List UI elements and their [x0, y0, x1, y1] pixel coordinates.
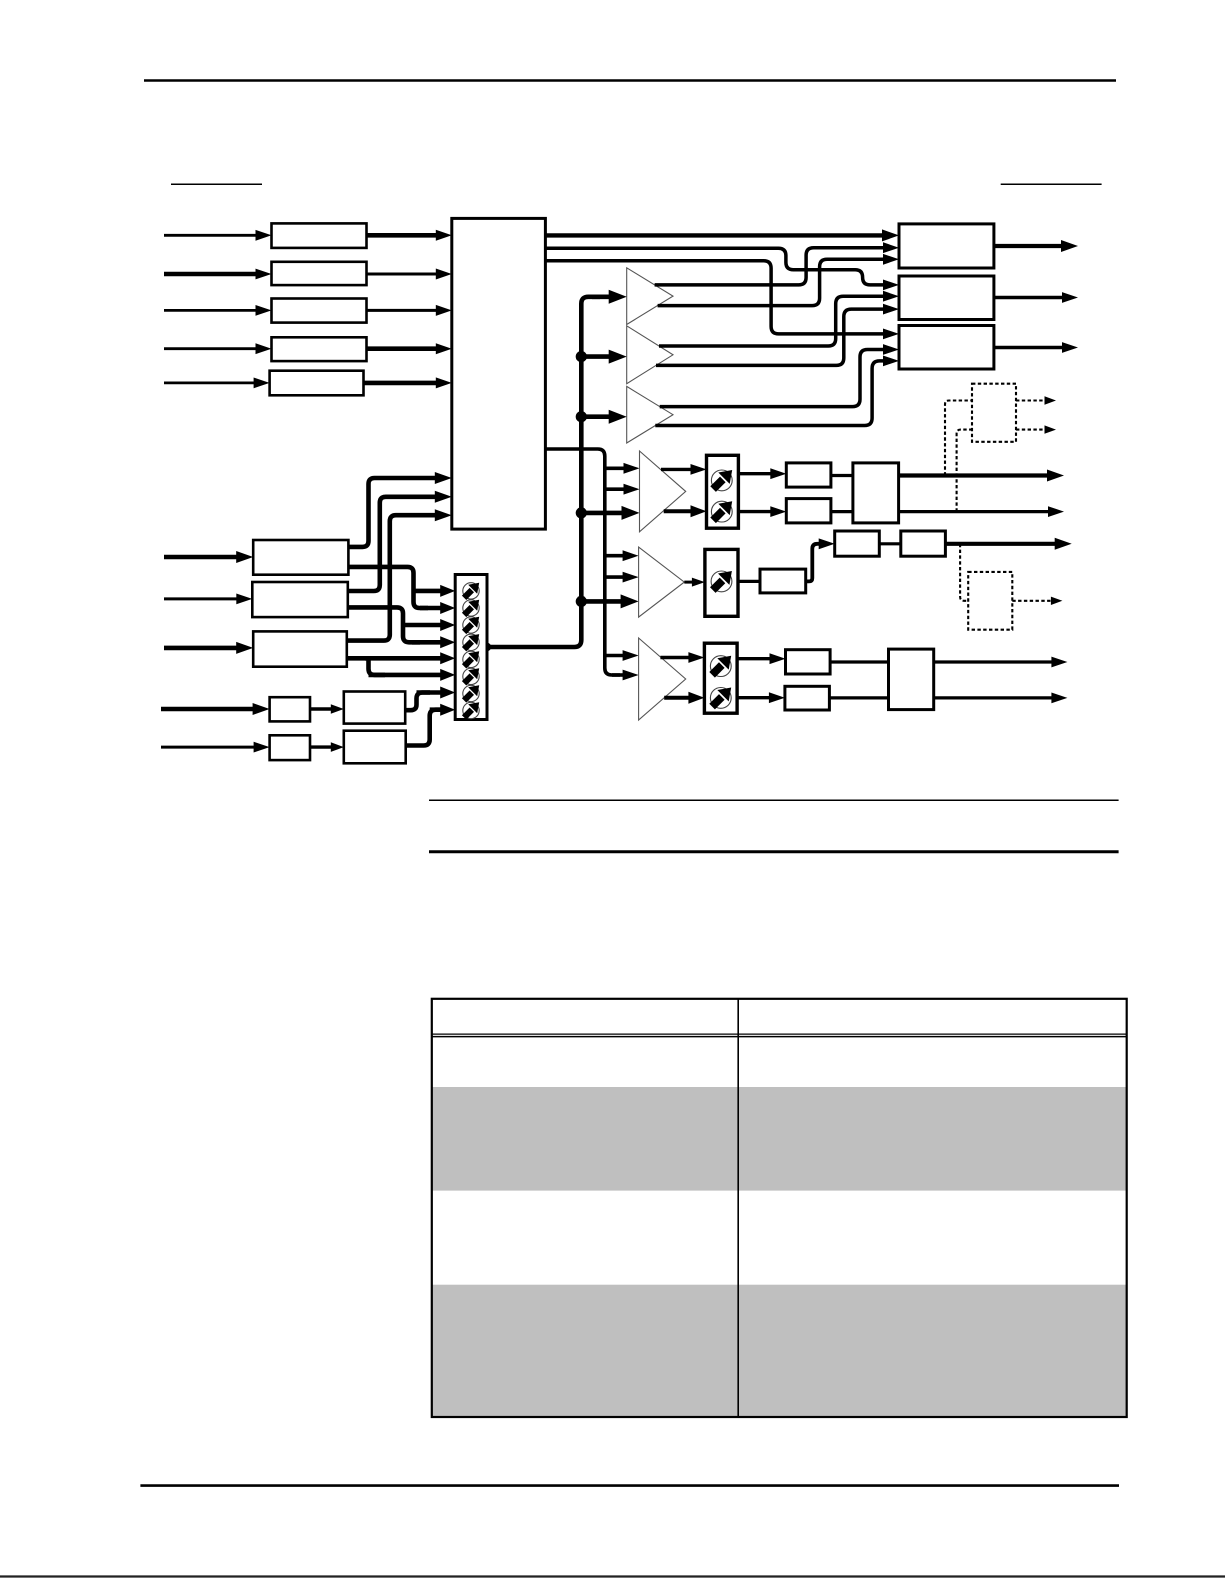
distribution amp DA1 — [627, 268, 673, 325]
attenuator knob B1 — [711, 571, 732, 592]
input arrow S1 — [161, 707, 255, 712]
bus junction at DA3 — [576, 411, 587, 422]
wire DA1 top output to R1 — [655, 248, 885, 285]
amp C output to attenuator top — [660, 656, 690, 659]
arrow into knob 3 — [403, 623, 442, 628]
table shaded row 4 — [432, 1285, 1127, 1417]
wire IN4 to switcher — [367, 346, 438, 351]
input arrow M3 — [164, 646, 238, 651]
stereo input box M2 — [252, 582, 347, 617]
audio amp C — [639, 638, 686, 720]
output processor box R3 — [899, 326, 994, 370]
amp B output to attenuator — [684, 581, 694, 584]
arrow into amp A input 1 — [605, 466, 626, 470]
dashed tap from H1 top output to D1 — [945, 401, 972, 476]
volume knob 2 — [463, 600, 479, 616]
section rule thin — [429, 799, 1119, 801]
wire DA2 top output to R2 — [659, 296, 885, 346]
attenuator pair box A — [707, 455, 739, 528]
input arrow IN1 — [164, 234, 258, 237]
arrow into amp A input 2 — [605, 487, 626, 491]
balance box G1b — [786, 499, 831, 523]
dashed tap from H2 output to D2 — [960, 544, 968, 601]
optional module D2 (dashed) — [968, 572, 1012, 630]
bus arrow into DA1 — [592, 294, 611, 299]
volume knob 8 — [463, 702, 479, 718]
arrow into knob 2 — [420, 606, 442, 611]
wire M3 to volume knob 5 — [347, 656, 442, 661]
bus arrow into amp B lower input — [581, 599, 622, 604]
arrow S2 to B2 — [310, 745, 333, 748]
wire G2 up to G3 — [806, 544, 821, 582]
wire U1 to R1 (top) — [545, 233, 884, 237]
wire DA2 bottom output to R2 — [656, 309, 885, 365]
table header separator double line — [432, 1033, 1127, 1035]
level box G3 — [835, 531, 880, 556]
wire IN2 to switcher — [367, 273, 438, 276]
arrow into knob 1 — [414, 589, 443, 594]
dashed output arrow D1 bottom — [1016, 429, 1046, 431]
wire G4a to H3 — [830, 660, 888, 663]
arrow into amp C input 1 — [605, 654, 625, 658]
wire IN3 to switcher — [367, 309, 438, 312]
output processor box R2 — [899, 276, 994, 320]
wire IN5 to switcher — [364, 381, 438, 386]
output stage box H2 — [901, 531, 946, 556]
wire attenuator A1 to box G1a — [738, 472, 772, 475]
input arrow M1 — [164, 555, 238, 560]
audio amp B — [639, 547, 685, 617]
wire DA1 bottom output to R1 — [658, 259, 885, 305]
bus junction at amp A — [576, 507, 587, 518]
wire U1 to R3 via jog — [545, 261, 885, 334]
volume knob bank box — [455, 575, 487, 720]
output stage box H3 — [889, 649, 934, 710]
stereo input box M1 — [253, 540, 348, 575]
table column divider — [737, 999, 739, 1417]
wire attenuator B to G2 — [738, 580, 760, 583]
volume knob 1 — [463, 583, 479, 599]
wire attenuator A2 to box G1b — [738, 510, 772, 513]
wire B1 to knob 7 — [405, 693, 430, 711]
distribution amp DA2 — [627, 326, 673, 384]
volume knob 7 — [463, 685, 479, 701]
wire attenuator C1 to G4a — [737, 657, 771, 660]
output arrow H3 bottom — [934, 696, 1054, 699]
arrow into knob 7 — [417, 690, 443, 695]
dashed output arrow D1 top — [1016, 399, 1046, 401]
arrow into amp B input 2 — [605, 575, 625, 579]
right heading underline — [1001, 183, 1102, 185]
wire G1a to H1 — [831, 474, 853, 477]
dashed tap from H1 bottom output to D1 — [957, 430, 972, 512]
wire G1b to H1 — [831, 510, 853, 513]
audio amp A — [640, 451, 686, 532]
dashed output arrow D2 — [1012, 600, 1052, 602]
wire attenuator C2 to G4b — [737, 696, 771, 699]
balance box G4b — [785, 686, 830, 710]
bus arrow into DA2 — [581, 354, 610, 359]
input buffer box IN1 — [272, 223, 367, 248]
wire DA3 top output to R3 — [660, 350, 885, 407]
arrow into knob 8 — [430, 707, 443, 712]
left heading underline — [171, 183, 262, 185]
volume knob 6 — [463, 668, 479, 684]
small box S2 — [270, 735, 310, 760]
output stage box H1 — [853, 463, 899, 523]
wire M1 to U1 input — [348, 478, 436, 547]
optional module D1 (dashed) — [972, 384, 1016, 442]
bus arrow into amp A lower input — [581, 511, 623, 516]
distribution amp DA3 — [627, 386, 673, 443]
preamp box B1 — [344, 692, 405, 724]
small box S1 — [270, 697, 310, 721]
input buffer box IN3 — [272, 299, 367, 323]
level box G2 — [760, 569, 806, 593]
attenuator knob C1 — [710, 656, 731, 677]
balance box G1a — [786, 463, 831, 487]
attenuator pair box C — [704, 643, 737, 713]
bus junction at DA2 — [576, 351, 587, 362]
wire M3 to U1 input — [347, 515, 437, 640]
wire U1 to R2 via jog — [545, 248, 885, 285]
attenuator knob A2 — [711, 501, 732, 522]
wire B2 to knob 8 — [406, 710, 443, 746]
top horizontal rule — [144, 79, 1116, 82]
output arrow H2 — [945, 542, 1056, 546]
footer rule — [140, 1484, 1119, 1487]
wire M2 to U1 input — [348, 497, 437, 591]
table shaded row 2 — [432, 1087, 1127, 1191]
input buffer box IN5 — [270, 371, 364, 396]
volume knob 5 — [463, 651, 479, 667]
wire M2 to volume knobs 3+4 — [348, 607, 420, 642]
output arrow H3 top — [934, 660, 1054, 663]
U1 audio output bus — [545, 449, 620, 675]
output arrow from R1 — [994, 244, 1063, 248]
input buffer box IN2 — [272, 262, 367, 285]
volume knob 3 — [463, 617, 479, 633]
wire DA3 bottom output to R3 — [655, 361, 885, 426]
arrow into amp B input 1 — [605, 554, 625, 558]
arrow into knob 6 — [369, 673, 443, 678]
output arrow from R3 — [994, 346, 1064, 349]
arrow into amp C input 2 — [612, 673, 625, 677]
volume knob 4 — [463, 634, 479, 650]
bus junction at amp B — [576, 596, 587, 607]
page bottom edge line — [0, 1575, 1225, 1577]
attenuator knob C2 — [710, 688, 731, 709]
amp A output to attenuator bottom — [664, 509, 693, 513]
section rule thick — [429, 850, 1119, 853]
attenuator knob A1 — [711, 470, 732, 491]
input arrow IN2 — [164, 272, 258, 277]
output arrow from R2 — [994, 296, 1064, 299]
input arrow S2 — [161, 746, 256, 749]
wire M1 to volume knobs 1+2 — [348, 567, 428, 608]
wire G3 to H2 — [879, 542, 901, 545]
output arrow H1 top — [899, 473, 1049, 477]
table outer border — [432, 999, 1127, 1417]
wire M3 branch to knob 6 — [365, 658, 385, 675]
amp A output to attenuator top — [661, 468, 693, 471]
stereo input box M3 — [253, 631, 347, 666]
input arrow IN4 — [164, 347, 258, 350]
wire IN1 to switcher — [367, 233, 438, 238]
output processor box R1 — [899, 224, 994, 268]
bus arrow into DA3 — [581, 414, 610, 419]
input arrow IN3 — [164, 309, 258, 312]
input buffer box IN4 — [272, 337, 367, 361]
input arrow IN5 — [164, 381, 256, 384]
main audio bus vertical — [487, 297, 600, 647]
wire G4b to H3 — [829, 696, 888, 699]
input arrow M2 — [164, 597, 238, 600]
preamp box B2 — [344, 731, 406, 764]
output arrow H1 bottom — [899, 510, 1050, 513]
arrow S1 to B1 — [310, 707, 333, 710]
bus junction at volume bank output — [483, 643, 491, 651]
main switcher block U1 — [452, 218, 546, 529]
balance box G4a — [786, 650, 831, 674]
amp C output to attenuator bottom — [664, 696, 690, 700]
arrow into knob 4 — [412, 640, 442, 645]
attenuator box B — [705, 549, 738, 616]
